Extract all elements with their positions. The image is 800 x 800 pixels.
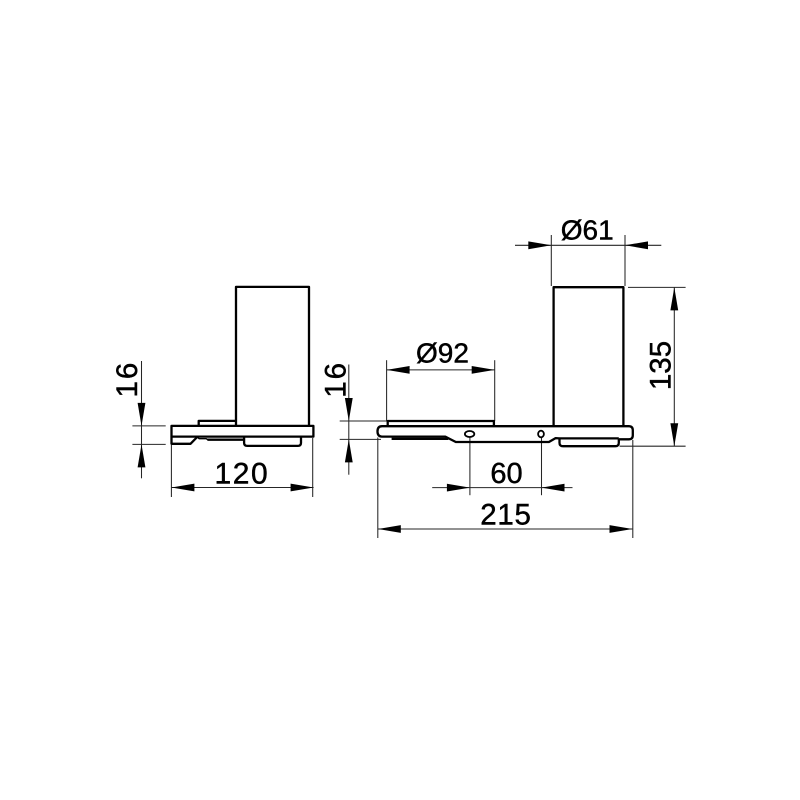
svg-text:Ø92: Ø92 — [416, 338, 469, 369]
svg-text:135: 135 — [644, 341, 677, 390]
svg-text:215: 215 — [480, 498, 531, 531]
svg-text:60: 60 — [490, 458, 522, 490]
svg-text:120: 120 — [214, 458, 269, 491]
svg-text:Ø61: Ø61 — [561, 215, 614, 246]
svg-text:16: 16 — [111, 361, 144, 398]
svg-text:16: 16 — [319, 361, 352, 398]
